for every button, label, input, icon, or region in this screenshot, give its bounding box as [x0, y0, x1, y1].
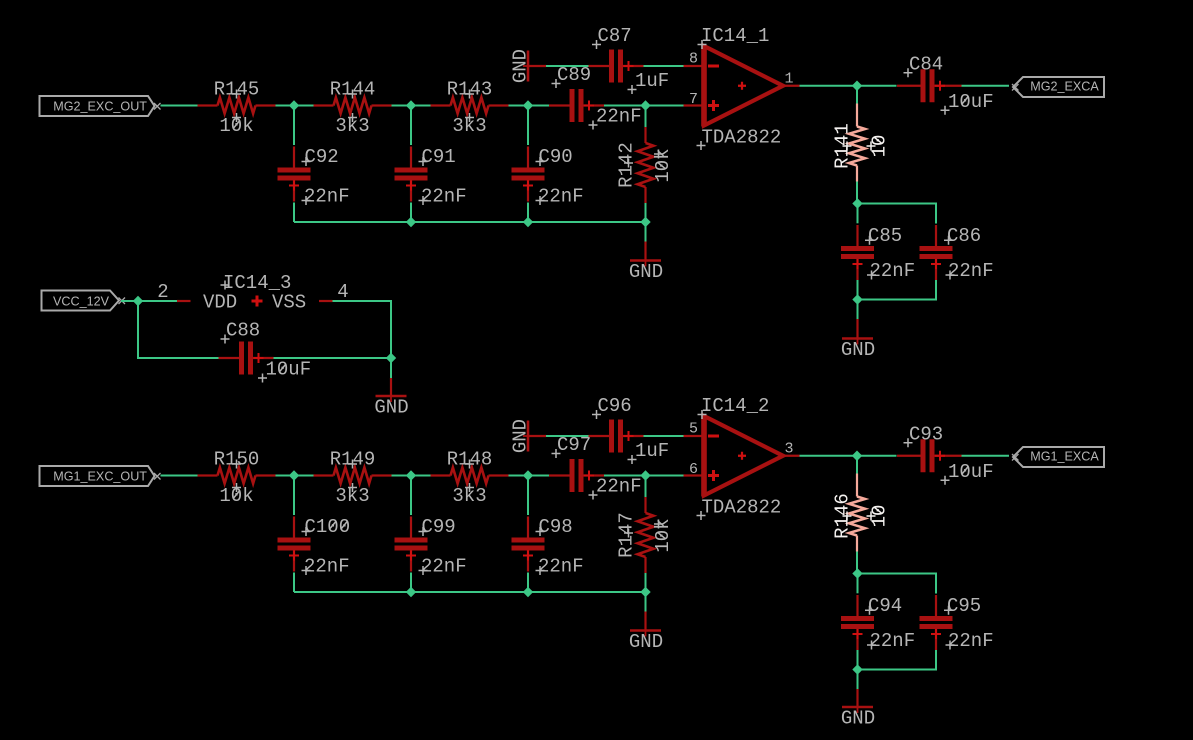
junction C88 right node — [386, 353, 396, 363]
svg-text:GND: GND — [841, 339, 875, 361]
wire — [527, 203, 529, 223]
net flag MG1_EXC_OUT — [40, 466, 161, 486]
wire — [604, 475, 684, 477]
svg-text:MG1_EXC_OUT: MG1_EXC_OUT — [53, 469, 147, 483]
wire — [410, 573, 412, 593]
wire — [528, 65, 546, 67]
capacitor C89 — [549, 64, 642, 130]
wire — [293, 203, 295, 223]
wire — [390, 358, 392, 378]
wire — [276, 475, 314, 477]
svg-text:1uF: 1uF — [635, 440, 669, 462]
capacitor C99 — [395, 516, 467, 578]
junction node C — [523, 100, 533, 110]
svg-text:GND: GND — [629, 631, 663, 653]
junction rail node — [640, 217, 650, 227]
junction rail node — [523, 587, 533, 597]
svg-text:5: 5 — [689, 421, 698, 438]
wire — [604, 105, 684, 107]
pin 5 stub — [684, 421, 702, 438]
svg-text:VDD: VDD — [203, 292, 237, 314]
junction output node — [852, 81, 862, 91]
svg-text:GND: GND — [629, 261, 663, 283]
wire — [644, 435, 685, 437]
capacitor C95 — [920, 595, 994, 652]
svg-text:C89: C89 — [557, 64, 591, 86]
svg-text:C96: C96 — [598, 395, 632, 417]
svg-text:C88: C88 — [226, 320, 260, 342]
capacitor C96 — [589, 395, 670, 464]
wire — [962, 85, 1010, 87]
ground GND supply — [509, 419, 534, 453]
junction node B' — [406, 470, 416, 480]
wire — [962, 455, 1010, 457]
pin 8 stub — [684, 51, 702, 68]
svg-text:C99: C99 — [422, 516, 456, 538]
wire — [857, 574, 859, 594]
svg-text:22nF: 22nF — [870, 630, 916, 652]
junction node A — [289, 100, 299, 110]
svg-text:C92: C92 — [305, 146, 339, 168]
svg-text:10uF: 10uF — [266, 359, 312, 381]
svg-text:22nF: 22nF — [948, 260, 994, 282]
wire — [645, 203, 647, 222]
svg-text:C94: C94 — [868, 595, 902, 617]
svg-text:TDA2822: TDA2822 — [702, 127, 782, 149]
wire — [509, 475, 550, 477]
ground — [841, 703, 875, 730]
resistor R142 — [616, 127, 675, 203]
capacitor C87 — [589, 25, 670, 94]
svg-text:22nF: 22nF — [304, 186, 350, 208]
wire — [410, 106, 412, 146]
capacitor C94 — [841, 595, 915, 652]
junction node B — [406, 100, 416, 110]
wire — [856, 456, 858, 474]
capacitor C93 — [897, 423, 994, 485]
svg-text:2: 2 — [157, 281, 168, 303]
junction rail node — [406, 217, 416, 227]
wire — [857, 300, 859, 320]
resistor R145 — [198, 79, 276, 138]
svg-text:MG2_EXC_OUT: MG2_EXC_OUT — [53, 99, 147, 113]
capacitor C88 — [219, 320, 312, 383]
resistor R149 — [314, 449, 392, 508]
svg-text:MG1_EXCA: MG1_EXCA — [1030, 449, 1099, 463]
wire — [856, 689, 858, 707]
svg-text:C84: C84 — [909, 53, 943, 75]
wire — [546, 435, 589, 437]
wire bottom rail — [294, 221, 646, 223]
svg-text:22nF: 22nF — [948, 630, 994, 652]
wire — [858, 574, 937, 594]
junction rail node — [406, 587, 416, 597]
wire — [509, 105, 550, 107]
wire — [274, 357, 392, 359]
svg-text:3: 3 — [785, 440, 794, 457]
wire — [857, 670, 859, 690]
wire — [138, 301, 219, 358]
svg-text:C95: C95 — [947, 595, 981, 617]
op-amp IC14_1 — [697, 25, 784, 150]
svg-text:22nF: 22nF — [870, 260, 916, 282]
wire — [856, 319, 858, 339]
pin 6 stub — [684, 461, 702, 478]
resistor R147 — [616, 497, 675, 573]
junction cap pair bottom node — [852, 664, 862, 674]
wire bottom rail — [294, 591, 646, 593]
capacitor C100 — [278, 516, 351, 578]
junction cap pair bottom node — [852, 294, 862, 304]
wire — [856, 182, 858, 204]
svg-text:TDA2822: TDA2822 — [702, 497, 782, 519]
wire — [528, 435, 546, 437]
svg-text:VSS: VSS — [272, 292, 306, 314]
svg-text:C86: C86 — [947, 225, 981, 247]
resistor R141 (highlighted) — [832, 104, 891, 182]
capacitor C85 — [841, 225, 915, 282]
svg-text:22nF: 22nF — [421, 186, 467, 208]
net flag VCC_12V — [42, 291, 126, 311]
wire — [856, 552, 858, 574]
svg-text:10uF: 10uF — [948, 91, 994, 113]
svg-text:IC14_3: IC14_3 — [223, 272, 291, 294]
junction rail node — [523, 217, 533, 227]
wire — [644, 612, 646, 631]
junction pink resistor bottom node — [852, 568, 862, 578]
resistor R148 — [431, 449, 509, 508]
wire — [392, 105, 431, 107]
capacitor C84 — [897, 53, 994, 115]
svg-text:22nF: 22nF — [304, 556, 350, 578]
svg-text:10uF: 10uF — [948, 461, 994, 483]
op-amp IC14_2 — [697, 395, 784, 520]
net flag MG1_EXCA — [1012, 447, 1104, 467]
svg-text:R142: R142 — [616, 142, 638, 188]
svg-text:6: 6 — [689, 461, 698, 478]
ground GND supply — [509, 49, 534, 83]
wire — [276, 105, 314, 107]
junction pink resistor bottom node — [852, 198, 862, 208]
wire — [644, 242, 646, 261]
wire — [527, 573, 529, 593]
wire — [293, 476, 295, 516]
wire — [293, 106, 295, 146]
junction R142 tap node — [640, 470, 650, 480]
ground — [629, 627, 663, 654]
junction R142 tap node — [640, 100, 650, 110]
resistor R144 — [314, 79, 392, 138]
wire — [645, 592, 647, 612]
svg-text:GND: GND — [841, 708, 875, 730]
junction node A' — [289, 470, 299, 480]
pin 7 stub — [684, 91, 702, 108]
resistor R143 — [431, 79, 509, 138]
pin 1 output stub — [783, 70, 800, 87]
wire — [121, 300, 177, 302]
svg-text:MG2_EXCA: MG2_EXCA — [1030, 79, 1099, 93]
wire — [161, 475, 198, 477]
wire — [333, 301, 392, 358]
svg-text:22nF: 22nF — [538, 186, 584, 208]
svg-text:IC14_2: IC14_2 — [701, 395, 769, 417]
svg-text:22nF: 22nF — [538, 556, 584, 578]
junction VCC node — [133, 296, 143, 306]
wire — [527, 106, 529, 146]
net flag MG2_EXC_OUT — [40, 96, 161, 116]
capacitor C91 — [395, 146, 467, 208]
wire — [392, 475, 431, 477]
svg-text:C97: C97 — [557, 434, 591, 456]
capacitor C98 — [512, 516, 584, 578]
capacitor C86 — [920, 225, 994, 282]
svg-text:1uF: 1uF — [635, 70, 669, 92]
wire — [856, 86, 858, 104]
svg-text:8: 8 — [689, 51, 698, 68]
svg-text:C98: C98 — [539, 516, 573, 538]
power symbol IC14_3 (VDD/VSS) — [157, 272, 348, 314]
wire — [800, 455, 897, 457]
svg-text:C87: C87 — [598, 25, 632, 47]
junction output node — [852, 451, 862, 461]
junction node C' — [523, 470, 533, 480]
wire — [293, 573, 295, 593]
svg-text:VCC_12V: VCC_12V — [53, 294, 110, 308]
wire — [161, 105, 198, 107]
wire — [645, 222, 647, 242]
ground — [629, 257, 663, 284]
svg-text:22nF: 22nF — [596, 476, 642, 498]
wire — [410, 203, 412, 223]
svg-text:C93: C93 — [909, 423, 943, 445]
wire — [546, 65, 589, 67]
junction rail node — [640, 587, 650, 597]
ground — [841, 335, 875, 362]
wire — [390, 378, 392, 396]
wire — [858, 280, 937, 300]
wire — [410, 476, 412, 516]
svg-text:IC14_1: IC14_1 — [701, 25, 769, 47]
resistor R146 (highlighted) — [832, 474, 891, 552]
svg-text:1: 1 — [785, 70, 794, 87]
wire — [645, 573, 647, 592]
capacitor C90 — [512, 146, 584, 208]
svg-text:R147: R147 — [616, 512, 638, 558]
net flag MG2_EXCA — [1012, 77, 1104, 97]
wire — [527, 476, 529, 516]
wire — [857, 204, 859, 224]
ground — [374, 392, 408, 419]
svg-text:22nF: 22nF — [596, 106, 642, 128]
pin 3 output stub — [783, 440, 800, 457]
wire — [645, 106, 647, 128]
wire — [857, 280, 859, 300]
wire — [858, 204, 937, 224]
wire — [644, 65, 685, 67]
capacitor C92 — [278, 146, 350, 208]
svg-text:C91: C91 — [422, 146, 456, 168]
svg-text:C90: C90 — [539, 146, 573, 168]
svg-text:GND: GND — [374, 397, 408, 419]
wire — [800, 85, 897, 87]
svg-text:7: 7 — [689, 91, 698, 108]
wire — [858, 650, 937, 670]
svg-text:C85: C85 — [868, 225, 902, 247]
svg-text:22nF: 22nF — [421, 556, 467, 578]
wire — [857, 650, 859, 670]
resistor R150 — [198, 449, 276, 508]
svg-text:4: 4 — [337, 281, 348, 303]
wire — [645, 476, 647, 498]
capacitor C97 — [549, 434, 642, 500]
